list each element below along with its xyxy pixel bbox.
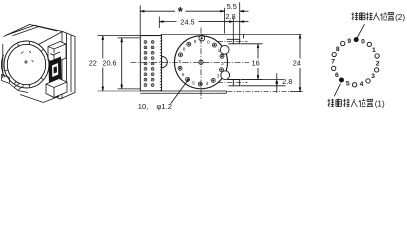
disc rim ticks	[5, 42, 43, 87]
terminal strip	[140, 36, 161, 91]
dim 20.6	[118, 37, 140, 39]
svg-text:22: 22	[89, 58, 97, 67]
svg-text:2: 2	[221, 61, 224, 66]
svg-text:5: 5	[346, 81, 350, 88]
svg-text:6: 6	[182, 72, 185, 77]
svg-text:0: 0	[207, 40, 210, 45]
svg-text:φ1.2: φ1.2	[157, 102, 172, 111]
svg-text:1: 1	[372, 47, 376, 54]
dim 24.5	[158, 17, 160, 29]
svg-text:7: 7	[331, 59, 335, 66]
svg-text:4: 4	[206, 81, 209, 86]
svg-text:8: 8	[183, 47, 186, 52]
svg-text:7: 7	[178, 59, 181, 64]
svg-text:6: 6	[335, 72, 339, 79]
contact holes ring	[199, 35, 205, 41]
svg-text:3: 3	[371, 73, 375, 80]
svg-text:24: 24	[293, 58, 301, 67]
center mark	[199, 60, 203, 64]
svg-text:0: 0	[361, 39, 365, 46]
pin layout: holes	[354, 37, 359, 42]
label (1)	[328, 99, 335, 107]
svg-text:9: 9	[347, 38, 351, 45]
svg-text:2.8: 2.8	[226, 12, 236, 21]
connector window	[49, 57, 62, 85]
centerlines	[131, 61, 250, 63]
disc center marks	[25, 61, 27, 63]
lower clamp box	[46, 79, 67, 98]
left foot	[2, 75, 60, 103]
svg-text:5: 5	[192, 80, 195, 85]
leader to (2)	[357, 24, 364, 37]
svg-text:16: 16	[252, 58, 260, 67]
dim 22	[98, 35, 141, 37]
strip edge hatch	[160, 38, 161, 91]
right tabs	[227, 39, 240, 86]
label (2)	[352, 12, 359, 20]
svg-text:5.5: 5.5	[227, 2, 237, 11]
D keyway	[162, 56, 168, 67]
front view top edges	[140, 35, 161, 37]
socket disc (front face)	[1, 41, 49, 88]
svg-text:9: 9	[194, 39, 197, 44]
socket isometric view: top face	[3, 25, 63, 79]
svg-text:(1): (1)	[375, 100, 385, 109]
socket circle	[175, 36, 228, 89]
dim 24	[228, 91, 291, 93]
boss circles on rim	[220, 45, 229, 54]
svg-text:8: 8	[336, 46, 340, 53]
upper clamp	[48, 42, 66, 64]
dim 5.5	[224, 8, 226, 34]
body bottom edges	[98, 90, 141, 92]
dim 16	[241, 43, 263, 45]
svg-text:(2): (2)	[395, 13, 405, 22]
dim 2.8 right	[241, 79, 284, 81]
leader to (1)	[334, 84, 340, 97]
svg-text:1: 1	[218, 48, 221, 53]
svg-text:20.6: 20.6	[102, 58, 116, 67]
body right side	[49, 32, 75, 100]
svg-text:24.5: 24.5	[180, 18, 194, 27]
svg-text:4: 4	[360, 81, 364, 88]
svg-text:2.8: 2.8	[282, 77, 292, 86]
dim star	[139, 6, 141, 36]
dim 2.8 top	[233, 21, 248, 23]
svg-text:2: 2	[376, 60, 380, 67]
svg-text:3: 3	[217, 73, 220, 78]
tab centerlines	[218, 41, 248, 43]
svg-text:10,: 10,	[138, 102, 149, 111]
